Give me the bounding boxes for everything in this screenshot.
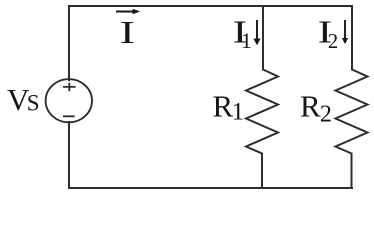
current arrow I2 (pointing down into R2) <box>342 20 348 44</box>
wire: bottom horizontal from source branch to R1 node <box>69 187 262 189</box>
svg-text:R: R <box>300 88 321 123</box>
svg-text:R: R <box>213 88 234 123</box>
wire: left vertical from source - terminal to bottom wire <box>68 122 70 188</box>
wire: R2 branch bottom stub <box>351 154 353 189</box>
resistor R2 (zigzag) <box>336 70 368 154</box>
svg-text:I: I <box>120 15 135 50</box>
wire: left vertical from top wire to source + terminal <box>68 6 70 80</box>
label VS (source value) <box>7 82 40 117</box>
svg-text:2: 2 <box>320 101 332 127</box>
svg-text:1: 1 <box>232 99 245 126</box>
wire: top horizontal from R1 node to R2 corner <box>263 5 352 7</box>
voltage source VS (circle with + and - marks) <box>46 79 92 122</box>
wire: R1 branch top stub <box>262 6 264 70</box>
current arrow I1 (pointing down into R1) <box>253 20 260 45</box>
svg-text:2: 2 <box>328 29 339 53</box>
wire: R2 branch top stub <box>351 6 353 70</box>
label I2 <box>318 15 339 53</box>
current arrow I (top wire, pointing right) <box>116 9 140 14</box>
wire: R1 branch bottom stub <box>261 154 263 189</box>
wire: top horizontal from source to R1 node <box>69 5 263 7</box>
resistor R1 (zigzag) <box>246 70 278 154</box>
label I1 <box>233 15 252 53</box>
label R2 <box>300 88 332 127</box>
label R1 <box>213 88 245 125</box>
wire: bottom horizontal from R1 node to R2 branch <box>262 187 352 189</box>
svg-text:1: 1 <box>241 28 252 53</box>
svg-text:S: S <box>27 91 40 116</box>
